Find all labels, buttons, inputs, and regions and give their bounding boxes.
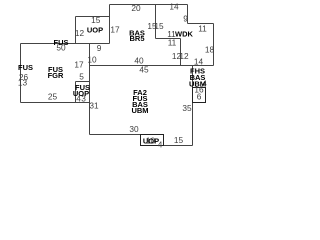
svg-text:UOP: UOP bbox=[87, 26, 103, 35]
svg-text:11: 11 bbox=[198, 24, 207, 34]
svg-text:25: 25 bbox=[48, 92, 58, 102]
svg-text:12: 12 bbox=[75, 28, 85, 38]
svg-text:17: 17 bbox=[110, 25, 120, 35]
svg-text:9: 9 bbox=[97, 43, 102, 53]
svg-text:20: 20 bbox=[131, 3, 141, 13]
svg-text:18: 18 bbox=[205, 45, 215, 55]
svg-text:UOP: UOP bbox=[143, 137, 159, 146]
svg-text:10: 10 bbox=[87, 55, 97, 65]
svg-text:15: 15 bbox=[174, 135, 184, 145]
svg-text:11: 11 bbox=[168, 37, 177, 47]
svg-text:14: 14 bbox=[194, 57, 204, 67]
svg-text:9: 9 bbox=[183, 14, 188, 24]
svg-text:FUS: FUS bbox=[54, 38, 69, 47]
svg-text:FGR: FGR bbox=[48, 71, 64, 80]
svg-text:BR5: BR5 bbox=[129, 34, 144, 43]
svg-text:13: 13 bbox=[18, 78, 28, 88]
svg-text:FUS: FUS bbox=[18, 63, 33, 72]
svg-text:UBM: UBM bbox=[131, 106, 148, 115]
svg-text:31: 31 bbox=[89, 101, 99, 111]
svg-text:45: 45 bbox=[139, 65, 149, 75]
svg-text:WDK: WDK bbox=[175, 30, 193, 39]
svg-text:UBM: UBM bbox=[189, 80, 206, 89]
svg-text:35: 35 bbox=[182, 103, 192, 113]
svg-text:12: 12 bbox=[179, 51, 189, 61]
svg-text:30: 30 bbox=[129, 124, 139, 134]
svg-text:17: 17 bbox=[74, 60, 84, 70]
svg-text:6: 6 bbox=[197, 92, 202, 102]
svg-text:5: 5 bbox=[79, 72, 84, 82]
svg-text:14: 14 bbox=[169, 2, 179, 12]
svg-text:UOP: UOP bbox=[73, 89, 89, 98]
svg-text:15: 15 bbox=[154, 21, 164, 31]
svg-text:15: 15 bbox=[91, 15, 101, 25]
